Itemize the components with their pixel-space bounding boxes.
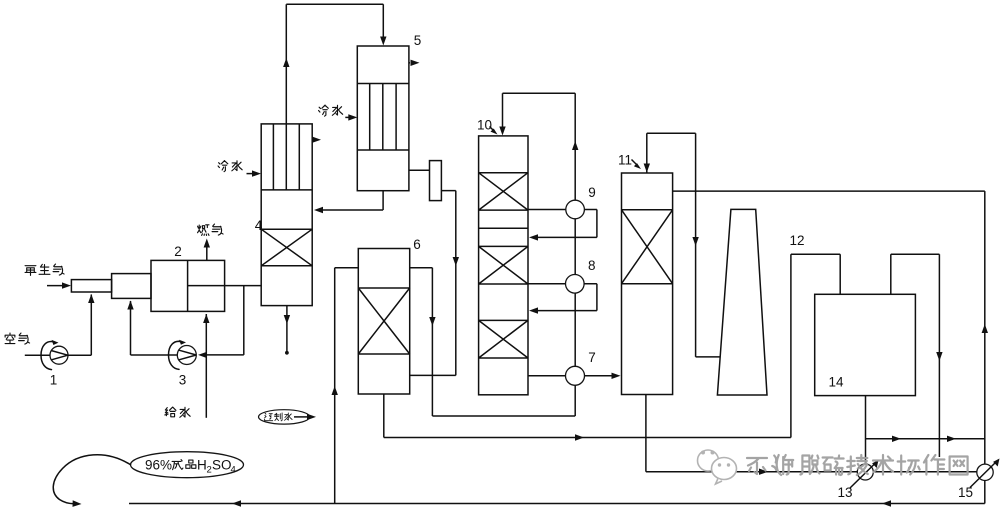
pipe pump 9 circulation loop [528, 210, 597, 241]
pump 13 [850, 460, 879, 488]
burner B2 (middle box) [112, 274, 151, 299]
label cold-water 冷水 (tower 5) [319, 105, 343, 116]
svg-text:2: 2 [174, 244, 182, 259]
pump 8 [566, 275, 585, 294]
tower 4 (combustion gas cooler) [261, 124, 312, 306]
watermark text 东狮脱硫技术协作网 [747, 455, 968, 475]
tower 10 (absorption tower) [479, 136, 528, 395]
pipe tank 14 bottom out [866, 396, 985, 464]
svg-text:H: H [197, 458, 207, 473]
pipe main riser to tower 10 top [499, 93, 578, 416]
pipe tower 11 bottom drain [646, 395, 985, 475]
pipe regen-gas inlet [47, 282, 71, 288]
pipe tower 11 acid out right to far riser [673, 191, 985, 464]
svg-text:SO: SO [212, 458, 232, 473]
pipe pump 7 transfer to tower 11 [528, 373, 621, 379]
label fuel-gas 燃气 [198, 224, 223, 235]
pipe pump3 to burner B2 [127, 301, 177, 356]
burner B1 (small box) [71, 280, 111, 292]
pipe branch down to pump 3 [198, 286, 244, 359]
pipe 12 right outlet duct [891, 254, 943, 457]
tower 6 (dynamic wave scrubber) [358, 249, 409, 395]
pipe tower 5 to demister [409, 169, 430, 171]
pipe tower 5 bottom return to tower 4 [314, 191, 383, 214]
svg-text:14: 14 [828, 375, 844, 390]
pump 9 [566, 200, 585, 219]
svg-text:4: 4 [231, 465, 236, 476]
svg-text:12: 12 [789, 233, 804, 248]
blower 3 [169, 340, 197, 370]
tank 14 (acid storage) [815, 294, 916, 395]
svg-text:2: 2 [207, 465, 212, 476]
svg-text:96%: 96% [145, 458, 172, 473]
arrow up on far right riser [982, 324, 988, 333]
svg-text:7: 7 [588, 350, 596, 365]
furnace 2 (incinerator) [151, 260, 225, 311]
pipe feed-water riser [203, 314, 209, 418]
pipe 12 left inlet duct [791, 254, 840, 437]
pipe tower 6 bottom drain across [384, 394, 791, 441]
chimney [717, 209, 767, 395]
svg-text:1: 1 [50, 373, 58, 388]
pipe blower1 to burner B1 [68, 294, 95, 355]
svg-text:8: 8 [588, 258, 596, 273]
watermark logo (chat bubbles) [698, 450, 737, 484]
label 11 with leader [618, 153, 641, 170]
pipe tower 4 riser to top main [283, 4, 386, 124]
label regen-gas 再生气 [25, 264, 64, 275]
pump 7 [566, 366, 585, 385]
label feed-water 给水 [165, 407, 190, 417]
pipe pump 8 circulation loop [528, 284, 597, 314]
svg-text:5: 5 [414, 33, 422, 48]
svg-text:10: 10 [477, 118, 492, 133]
pipe demister down to tower 6 [410, 191, 459, 376]
label excess-water ellipse 过剩水 [259, 410, 317, 424]
svg-text:4: 4 [255, 218, 263, 233]
product swoosh arrow [53, 455, 130, 507]
tower 5 (cooler) [357, 46, 409, 191]
pipe cold-water inlet tower 5 [345, 114, 357, 120]
label 10 with leader [477, 118, 498, 135]
pipe furnace outlet to tower 4 [225, 285, 262, 287]
pipe fuel-gas vent [204, 239, 210, 261]
label product acid ellipse 96%成品H2SO4 [131, 452, 244, 478]
pipe air inlet [25, 354, 50, 356]
pipe tower 6 gas out to main riser [410, 268, 576, 416]
svg-text:3: 3 [179, 373, 187, 388]
tower 4 acid drip [284, 306, 290, 355]
pipe riser from bottom main to tower 6 [332, 268, 359, 504]
svg-text:6: 6 [413, 237, 421, 252]
svg-text:15: 15 [958, 485, 973, 500]
demister (small vessel) [430, 161, 442, 201]
blower 1 [41, 340, 68, 370]
pipe tower 4 vent right [312, 137, 321, 143]
tower 11 (drying tower) [622, 173, 673, 395]
label air 空气 [5, 333, 29, 344]
pipe bottom main header [129, 500, 985, 506]
pipe tower 11 top gas to chimney [644, 133, 720, 357]
pump 15 [970, 459, 1000, 504]
svg-text:11: 11 [618, 153, 632, 168]
svg-text:13: 13 [837, 485, 852, 500]
pipe tower 5 vent right [409, 60, 420, 66]
label cold-water 冷水 (tower 4) [218, 161, 242, 172]
svg-text:9: 9 [588, 185, 596, 200]
pipe cold-water inlet tower 4 [247, 170, 262, 176]
